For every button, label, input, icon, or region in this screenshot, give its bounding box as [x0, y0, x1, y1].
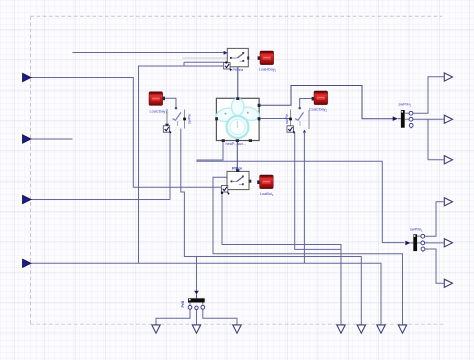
- wire right selector checkbox down joining T4 net: [295, 133, 341, 250]
- right selector swPle2: [289, 107, 309, 132]
- bottom connector b6: [377, 325, 385, 333]
- input connector u4: [23, 259, 32, 267]
- checkbox constant PIHea: [224, 62, 232, 72]
- wire heat pump right-top output to demux1: [259, 86, 393, 119]
- output connector y3: [444, 156, 452, 164]
- wire left selector output down to T5: [181, 129, 361, 325]
- output connector y2: [444, 115, 452, 123]
- checkbox right selector: [287, 126, 295, 134]
- switch PIHea box: [224, 48, 250, 66]
- bottom connector b1: [152, 325, 160, 333]
- wire switch PIBoi input riser to T7: [213, 177, 403, 324]
- wire heat pump bottom-left port to demux2: [197, 141, 405, 243]
- table LoaBoi: [257, 175, 273, 189]
- table LoaCDay2: [312, 91, 328, 105]
- bottom connector b4: [337, 325, 345, 333]
- wire left selector checkbox down: [169, 133, 171, 200]
- bottom connector b7: [398, 325, 406, 333]
- wire input1 to switch PIBoi checkbox: [31, 78, 222, 188]
- output connector y5: [444, 239, 452, 247]
- wire bottom multiplex out1: [156, 309, 190, 325]
- wire input2 stub: [31, 138, 73, 140]
- wire demux1 out3: [428, 119, 444, 160]
- table LoaCDay: [149, 92, 165, 106]
- wire table LoaCDay to left selector: [165, 98, 177, 107]
- input connector u2: [23, 135, 32, 143]
- wire junction to bottom multiplex input: [196, 257, 198, 291]
- input connector u3: [23, 195, 32, 203]
- bottom connector b5: [357, 325, 365, 333]
- faint switch rail extension: [183, 57, 228, 59]
- output connector y1: [444, 73, 452, 81]
- svg-text:swPle: swPle: [285, 114, 289, 124]
- wire demux1 out1: [413, 77, 444, 113]
- bottom multiplex mulBoi: [188, 291, 205, 310]
- output connector y6: [444, 279, 452, 287]
- wire tick to checkbox PIHea: [184, 62, 225, 65]
- demux2 swPrB: [405, 234, 425, 252]
- wire switch PIHea output to heat pump top: [237, 67, 239, 98]
- wire demux2 out3: [425, 249, 444, 283]
- wire demux2 out2: [425, 242, 444, 244]
- svg-text:heaP...aux...: heaP...aux...: [226, 142, 247, 146]
- svg-text:swPle: swPle: [188, 114, 192, 124]
- wire switch PIBoi checkbox down to T4: [222, 193, 341, 325]
- wire heat pump bottom-center to switch PIBoi: [236, 141, 238, 170]
- wire bottom multiplex out3: [203, 309, 237, 325]
- wire demux1 out2: [413, 118, 444, 120]
- checkbox constant PIBoi: [221, 186, 230, 195]
- wire table LoaCDay2 to right selector: [300, 99, 312, 108]
- diagram dashed border: [31, 15, 443, 17]
- svg-text:PIHea: PIHea: [233, 68, 244, 72]
- wire demux2 out1: [425, 202, 444, 236]
- input connector u1: [23, 73, 32, 81]
- demux1 swPrH: [393, 110, 413, 128]
- wire input3 to left selector checkbox: [31, 199, 171, 201]
- wire checkbox PIHea long drop to T6 net: [139, 66, 224, 263]
- wire right selector riser onto T6 net: [303, 133, 305, 263]
- table LoaHDay: [258, 51, 274, 65]
- svg-text:PIBoi: PIBoi: [232, 166, 242, 170]
- output connector y4: [444, 198, 452, 206]
- heat pump block U1: [215, 97, 261, 142]
- switch PIBoi box: [227, 169, 251, 189]
- wire input4 long to bottom triangle T6: [31, 263, 382, 325]
- svg-text:PrB: PrB: [181, 300, 185, 307]
- bottom connector b3: [233, 325, 241, 333]
- bottom connector b2: [192, 325, 200, 333]
- left selector swPle: [165, 107, 186, 128]
- wire heat pump right-mid to right selector: [259, 118, 290, 120]
- wire bottom multiplex out2: [196, 310, 198, 325]
- wire u1 to switch PIHea: [73, 52, 226, 54]
- checkbox left selector: [163, 126, 171, 134]
